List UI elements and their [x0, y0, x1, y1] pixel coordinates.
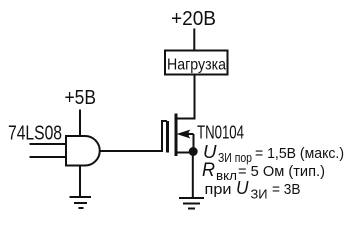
- svg-text:ЗИ: ЗИ: [251, 187, 268, 202]
- svg-text:R: R: [202, 160, 215, 181]
- svg-text:Нагрузка: Нагрузка: [167, 57, 226, 74]
- svg-text:TN0104: TN0104: [197, 123, 244, 143]
- svg-text:U: U: [236, 177, 249, 198]
- svg-text:= 1,5В (макс.): = 1,5В (макс.): [255, 145, 344, 162]
- svg-text:+20В: +20В: [171, 8, 216, 30]
- svg-text:U: U: [203, 141, 217, 162]
- svg-text:= 3В: = 3В: [272, 181, 301, 198]
- svg-text:= 5 Ом (тип.): = 5 Ом (тип.): [238, 163, 325, 180]
- svg-text:+5В: +5В: [65, 87, 97, 109]
- svg-text:при: при: [205, 181, 232, 198]
- svg-text:74LS08: 74LS08: [8, 123, 62, 145]
